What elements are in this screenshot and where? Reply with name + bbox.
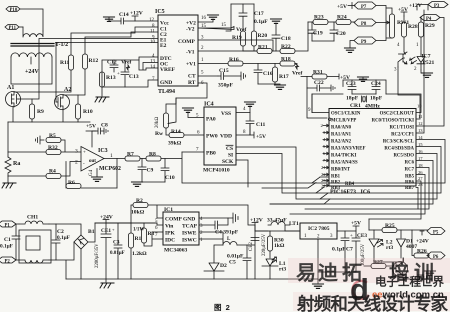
resistor R19 [241, 31, 246, 46]
svg-text:27: 27 [418, 176, 423, 181]
wire R2 left down to R1 [95, 205, 133, 233]
wire C19 C20 bottoms [312, 40, 334, 42]
svg-text:R28: R28 [408, 24, 418, 30]
svg-text:C3: C3 [113, 240, 120, 246]
wire op-amp output [104, 158, 125, 160]
capacitor C1 [12, 224, 20, 260]
resistor R18 [280, 61, 295, 66]
svg-text:R14: R14 [171, 129, 181, 135]
svg-text:R20: R20 [258, 33, 268, 39]
svg-text:IC2 7805: IC2 7805 [308, 226, 330, 232]
wire +12V to Vcc [132, 16, 158, 21]
svg-text:C4 391pF: C4 391pF [215, 230, 239, 236]
svg-text:COMP: COMP [165, 217, 182, 223]
svg-text:C22: C22 [314, 80, 324, 86]
primary coil [23, 27, 43, 37]
inductor L [223, 241, 237, 245]
svg-text:射频和天线设计专家: 射频和天线设计专家 [296, 294, 449, 312]
wire R25 to P5 [397, 229, 428, 231]
connector P8 [354, 19, 376, 27]
wire VSS to ground [236, 106, 250, 113]
svg-text:Vref: Vref [292, 71, 302, 77]
wire CT to C15 [198, 75, 218, 77]
svg-text:10: 10 [417, 104, 422, 109]
svg-text:IC7: IC7 [422, 54, 431, 60]
connector P11 [5, 25, 19, 32]
svg-text:1/1W: 1/1W [133, 228, 144, 233]
diode D2 [204, 245, 224, 279]
svg-text:15: 15 [221, 23, 227, 28]
wire VDD +5V [236, 124, 254, 138]
svg-text:RC3/SCK/SCL: RC3/SCK/SCL [383, 140, 414, 145]
svg-text:350pF: 350pF [218, 83, 234, 89]
svg-text:PB0: PB0 [206, 151, 216, 157]
wire R4 right to op-amp -in [61, 162, 81, 177]
resistor R23 [308, 21, 313, 23]
transistor A1 [6, 85, 21, 107]
wire R24 to P8 [351, 21, 355, 23]
svg-text:+: + [350, 234, 353, 239]
resistor R31 [301, 76, 312, 78]
capacitor C8 [92, 128, 104, 134]
svg-text:RA3/AN3/VREF: RA3/AN3/VREF [331, 147, 365, 152]
svg-text:R1: R1 [135, 236, 142, 242]
resistor R22 [272, 50, 280, 52]
wire -V2 to Vref [198, 27, 234, 30]
resistor R9 [30, 104, 35, 119]
svg-text:+V1: +V1 [186, 62, 196, 68]
svg-text:P9: P9 [361, 40, 367, 45]
B1 output to +24V rail [81, 223, 95, 279]
IC4 MCP41010 box [204, 107, 236, 165]
svg-text:CE1: CE1 [101, 228, 111, 234]
svg-text:OSC2/CLKOUT: OSC2/CLKOUT [380, 112, 415, 117]
svg-text:RA5/AN4/SS: RA5/AN4/SS [331, 161, 358, 166]
wire GND pin to ground [199, 217, 233, 219]
svg-text:C20: C20 [336, 31, 346, 37]
IC6 PIC16F873 box [329, 109, 416, 187]
svg-text:RA0/AN0: RA0/AN0 [331, 126, 352, 131]
wire GND pin 7 left [102, 72, 158, 96]
+24V rail into MC34063 [95, 223, 163, 225]
svg-text:E2: E2 [160, 43, 167, 49]
wire D1 L2 to collector [374, 258, 404, 262]
resistor R10 [76, 104, 81, 119]
svg-text:R19: R19 [232, 35, 242, 41]
svg-text:P5: P5 [433, 231, 439, 236]
bus line from RB7 [416, 188, 418, 210]
svg-text:R16: R16 [229, 57, 239, 63]
svg-text:CE2: CE2 [249, 242, 254, 251]
svg-text:图 2: 图 2 [214, 303, 230, 312]
op-amp power +5V [86, 131, 96, 147]
wire IC4 SCK to bus [236, 160, 320, 183]
capacitor CE2 [251, 238, 259, 241]
svg-text:CH1: CH1 [27, 215, 38, 221]
resistor R4 [46, 174, 61, 179]
svg-text:R17: R17 [279, 74, 289, 80]
svg-text:C23: C23 [346, 81, 356, 87]
wire R5,R32 right to op-amp +in [61, 140, 81, 152]
wire Vref to network [226, 4, 231, 31]
wire PA0 to ground [188, 112, 204, 118]
svg-text:TCAP: TCAP [182, 224, 198, 230]
bus horizontal 2 to RC4 [316, 147, 441, 194]
svg-text:0.1µF: 0.1µF [0, 244, 13, 250]
ground under R13 [95, 97, 109, 102]
svg-text:C13: C13 [129, 74, 139, 80]
wire from P10 [20, 9, 43, 31]
svg-text:RC5/SDO: RC5/SDO [393, 154, 414, 159]
resistor R7 [125, 156, 140, 161]
resistor R12 [83, 54, 88, 69]
svg-text:11: 11 [150, 30, 155, 35]
svg-text:+5V: +5V [337, 4, 347, 10]
capacitor CE3 [318, 231, 360, 272]
ground right of C15 [241, 72, 246, 80]
wire R14 to PW0 [184, 134, 204, 136]
svg-text:R4: R4 [49, 169, 56, 175]
svg-text:R21: R21 [258, 45, 268, 51]
svg-text:0.1µF: 0.1µF [254, 19, 268, 25]
svg-text:P2: P2 [5, 260, 11, 265]
transformer core T-1/2 [11, 44, 54, 47]
svg-text:IC3: IC3 [98, 148, 108, 154]
connector P6 [427, 252, 445, 260]
ground between C23 C24 [358, 77, 369, 81]
svg-text:R25: R25 [385, 223, 395, 229]
svg-text:C10: C10 [165, 175, 175, 181]
capacitor C5 [243, 245, 251, 279]
capacitor C3 [106, 223, 157, 279]
svg-text:P10: P10 [10, 8, 18, 13]
svg-text:+12V: +12V [409, 3, 422, 9]
svg-text:+24V: +24V [25, 69, 39, 75]
wire MCLR [307, 88, 331, 121]
svg-text:RC1/T1OSI: RC1/T1OSI [389, 126, 414, 131]
svg-text:P7: P7 [361, 5, 367, 10]
optocoupler IC7 P521 phototransistor [398, 52, 406, 67]
node +24V center tap [30, 57, 32, 64]
svg-text:C11: C11 [256, 122, 266, 128]
svg-text:rt3: rt3 [386, 245, 393, 251]
resistor R17 [274, 64, 276, 68]
IC1 MC34063 box [163, 212, 199, 245]
ground under R17 [275, 85, 286, 89]
ground below Ra [7, 176, 9, 183]
svg-text:RB3: RB3 [331, 186, 341, 191]
ground above C18 [271, 19, 282, 23]
svg-text:R11: R11 [60, 60, 70, 66]
svg-text:RA4/T0CKI: RA4/T0CKI [331, 154, 356, 159]
svg-text:COMP: COMP [178, 39, 195, 45]
wire C16 R17 bottoms [258, 82, 275, 84]
wire IC4 CS to bus [236, 147, 328, 199]
svg-text:0.01µF: 0.01µF [110, 251, 125, 256]
svg-text:VDD: VDD [220, 134, 232, 140]
capacitor C14 [121, 18, 135, 24]
svg-text:CT: CT [188, 74, 196, 80]
wire R7-R8 [140, 158, 146, 160]
connector P9 [354, 37, 376, 45]
ground symbol on return [105, 279, 107, 282]
svg-text:12: 12 [418, 121, 423, 126]
svg-text:C16: C16 [263, 71, 273, 77]
svg-text:-V1: -V1 [186, 50, 195, 56]
svg-text:R10: R10 [83, 109, 93, 115]
svg-text:33-47µF: 33-47µF [267, 218, 287, 224]
svg-text:RB1: RB1 [331, 175, 341, 180]
wire +V2 to ground [198, 19, 213, 22]
svg-text:ISWC: ISWC [182, 238, 197, 244]
resistor R3 [143, 223, 145, 228]
svg-text:+: + [117, 72, 120, 77]
svg-text:18pF: 18pF [346, 96, 359, 102]
bus horizontal 1 to RC3 [312, 140, 445, 184]
svg-text:LT1: LT1 [289, 221, 299, 227]
ground for C8 [104, 128, 108, 134]
resistor R32 [46, 150, 61, 155]
wire down to Ra [7, 122, 9, 157]
wire vref node [102, 60, 139, 72]
svg-text:A2: A2 [64, 87, 71, 93]
bus horizontal 6 RB5 [290, 175, 425, 215]
connector P5 [427, 228, 445, 236]
svg-text:A1: A1 [7, 85, 14, 91]
svg-text:R29: R29 [425, 23, 435, 29]
svg-text:RC0/T1OSO/T1CKI: RC0/T1OSO/T1CKI [372, 119, 415, 124]
wire R22 right up to R23 net [295, 22, 308, 51]
resistor R6 [66, 184, 81, 189]
svg-text:IDC: IDC [165, 238, 175, 244]
wire -V1 line [198, 50, 257, 52]
resistor R28 [403, 16, 405, 22]
ground right of C22 [331, 85, 335, 91]
bus left verticals to bottom [368, 219, 370, 230]
watermark pink haze bands [288, 258, 450, 283]
wire A2 gate [55, 97, 57, 102]
op-amp gnd [96, 169, 98, 178]
connector P1 [0, 221, 16, 229]
wire C2 line [85, 32, 158, 54]
optocoupler LED [417, 54, 425, 70]
connector P10 [6, 7, 20, 14]
wire 7805 in [285, 225, 300, 231]
svg-text:MC34063: MC34063 [164, 248, 188, 254]
svg-text:GND: GND [160, 80, 172, 86]
connector P3 [428, 2, 448, 9]
svg-text:1kΩ: 1kΩ [274, 243, 285, 249]
svg-text:G4: G4 [89, 169, 94, 176]
svg-text:14: 14 [150, 65, 156, 70]
svg-text:-V2: -V2 [186, 27, 195, 33]
resistor R8 [146, 156, 161, 161]
connector P7 [354, 2, 376, 10]
wire +V1 line [198, 63, 228, 65]
svg-text:R32: R32 [48, 145, 58, 151]
resistor R20 [253, 4, 255, 31]
svg-text:SI: SI [228, 153, 233, 159]
svg-text:RC2/CCP1: RC2/CCP1 [391, 133, 415, 138]
wire from P11 [19, 26, 23, 28]
svg-text:0.1µF: 0.1µF [57, 235, 70, 241]
connector P4 [420, 15, 440, 22]
resistor R26 [412, 230, 414, 256]
svg-text:13: 13 [150, 60, 156, 65]
svg-text:电子工程世界: 电子工程世界 [375, 275, 444, 289]
svg-text:R26: R26 [417, 249, 427, 255]
resistor Ra (zigzag) [5, 157, 11, 176]
connector P2 [0, 257, 16, 265]
svg-text:CE3: CE3 [357, 233, 367, 239]
opto emitter to ground [421, 70, 427, 73]
wires DTC OC VREF loop [139, 57, 158, 70]
svg-text:+24V: +24V [416, 239, 429, 245]
svg-text:RC6: RC6 [405, 161, 415, 166]
svg-text:RC4/SDI/SDA: RC4/SDI/SDA [384, 147, 414, 152]
capacitor C19 [308, 22, 316, 41]
svg-text:CS: CS [226, 146, 233, 152]
transistor A2 [55, 87, 72, 110]
svg-text:+5V: +5V [86, 124, 96, 130]
wire feedback [66, 159, 117, 189]
capacitor C17 [239, 4, 247, 31]
svg-text:RB0/INT: RB0/INT [331, 168, 351, 173]
svg-text:+5V: +5V [256, 134, 266, 140]
wire R8 right to PB0 and to PIC [161, 152, 248, 183]
svg-text:VREF: VREF [160, 67, 176, 73]
svg-text:PW0: PW0 [206, 134, 218, 140]
svg-text:10kΩ: 10kΩ [131, 210, 145, 216]
svg-text:P4: P4 [426, 17, 432, 22]
feedback network top wire [231, 3, 254, 5]
svg-text:IC1: IC1 [164, 207, 173, 213]
svg-text:+: + [83, 151, 86, 156]
transformer box [11, 57, 52, 84]
ground for C9 C10 [137, 181, 165, 183]
potentiometer Rw 20k [164, 113, 169, 128]
svg-text:16: 16 [201, 16, 207, 21]
wire E2 line [56, 43, 158, 98]
svg-text:C19: C19 [313, 31, 323, 37]
svg-text:R6: R6 [68, 180, 75, 186]
svg-text:R22: R22 [281, 44, 291, 50]
svg-text:1.2kΩ: 1.2kΩ [132, 251, 147, 257]
svg-text:13: 13 [418, 128, 423, 133]
wire 7805 gnd [317, 239, 319, 283]
svg-text:Rw: Rw [155, 131, 164, 137]
capacitor C18 [272, 23, 280, 51]
svg-text:R24: R24 [337, 15, 347, 21]
wire P4 to RC1 [416, 18, 444, 127]
svg-text:P8: P8 [361, 22, 367, 27]
svg-text:B1: B1 [88, 229, 95, 235]
bus horizontal 3 to RC5 [320, 154, 437, 200]
ground-cap left of R5 [36, 136, 45, 144]
svg-text:P3: P3 [434, 4, 440, 9]
svg-text:C14: C14 [119, 12, 129, 18]
LED L1 [262, 251, 278, 279]
LED L2 [369, 230, 383, 262]
wire ISWE ISWC to switch node [199, 232, 223, 241]
ground return wire bottom [66, 278, 318, 280]
svg-text:R23: R23 [314, 15, 324, 21]
wire R4 left to Ra bottom [8, 175, 46, 177]
svg-text:RC7: RC7 [405, 168, 415, 173]
svg-text:VSS: VSS [221, 111, 231, 117]
bus horizontal 4 RC6 [270, 161, 433, 205]
capacitor CE1 [101, 223, 111, 279]
svg-text:C18: C18 [281, 36, 291, 42]
svg-text:P1: P1 [5, 224, 11, 229]
label Vref down arrow [295, 64, 299, 70]
resistor R27 [371, 264, 386, 269]
svg-text:IPK: IPK [165, 231, 176, 237]
svg-text:2: 2 [75, 160, 78, 166]
resistor R14 [166, 128, 169, 135]
svg-text:IC5: IC5 [155, 9, 165, 15]
svg-text:R18: R18 [281, 57, 291, 63]
bus horizontal 5 RC7 [305, 168, 429, 210]
watermark red logo arc [352, 281, 368, 299]
svg-text:C9: C9 [147, 168, 154, 174]
wire inductor to +12V node [237, 225, 255, 279]
wire COMP to feedback node [198, 40, 273, 51]
svg-text:R13: R13 [106, 75, 116, 81]
svg-text:R31: R31 [313, 70, 323, 76]
svg-text:P11: P11 [9, 26, 17, 31]
capacitor C16 [254, 64, 262, 85]
svg-text:TL494: TL494 [158, 89, 175, 95]
svg-text:10: 10 [150, 40, 156, 45]
wire R12 to A2 drain [63, 69, 85, 95]
wire bus RB3 diagonal [262, 183, 316, 189]
svg-text:Ra: Ra [13, 161, 20, 167]
svg-text:RA2/AN2: RA2/AN2 [331, 140, 352, 145]
svg-text:C1: C1 [4, 237, 11, 243]
resistor R11 [69, 55, 74, 70]
wire IC4 SI to bus [236, 154, 324, 194]
svg-text:C8: C8 [101, 123, 108, 129]
svg-text:RA1/AN1: RA1/AN1 [331, 133, 352, 138]
svg-text:+5V: +5V [351, 221, 361, 227]
svg-text:R8: R8 [149, 152, 156, 158]
emitter cap and ground [403, 271, 431, 279]
resistor R24 [328, 21, 336, 23]
wires P7 P9 to RW1 [376, 6, 392, 41]
wire R2 right to COMP [148, 205, 255, 225]
resistor R29 [420, 18, 422, 23]
wires to opto [404, 37, 421, 54]
svg-text:18pF: 18pF [370, 96, 383, 102]
rail +12V to 7805 [255, 225, 300, 231]
wire bus RB4 diagonal [270, 199, 330, 204]
resistor R21 [257, 49, 272, 54]
svg-text:SCK: SCK [222, 159, 234, 165]
wire RT to Rw [168, 83, 207, 124]
wire gate node to R9 [31, 99, 33, 122]
wire R16 to R18 [243, 63, 280, 65]
bus line RC3 [248, 177, 328, 187]
wire opto pin3 down [398, 67, 420, 119]
svg-text:RT: RT [188, 80, 196, 86]
svg-text:2200µF/35V: 2200µF/35V [95, 243, 100, 268]
wire 7805 out +5V [337, 226, 359, 231]
wire RC0 from opto [415, 118, 417, 120]
svg-text:IC4: IC4 [204, 102, 214, 108]
resistor R25 [369, 229, 382, 231]
capacitor C2 [49, 224, 60, 260]
